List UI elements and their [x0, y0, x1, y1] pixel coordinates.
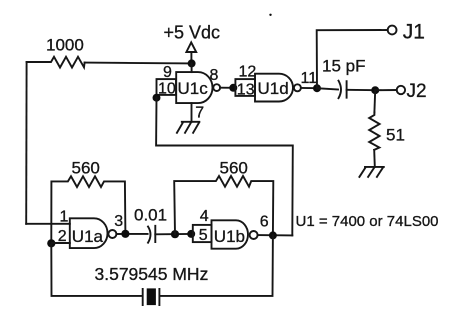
wire resistor 51 to ground: [373, 150, 376, 167]
svg-text:7: 7: [195, 105, 204, 122]
svg-text:4: 4: [200, 208, 209, 225]
pin label 1: [60, 209, 69, 226]
pin box 13 of U1d: [235, 79, 255, 98]
wire to J2: [375, 89, 397, 91]
svg-text:U1b: U1b: [214, 227, 245, 246]
wire pin 1 of U1a: [26, 223, 70, 225]
svg-text:0.01: 0.01: [134, 206, 167, 225]
output bubble U1b pin 6: [250, 214, 269, 239]
wire U1b output node up to U1c pin 10: [156, 98, 293, 236]
svg-text:8: 8: [210, 67, 219, 84]
ground below U1c pin 7: [177, 122, 199, 133]
node 0.01/560 junction: [171, 230, 179, 238]
pin box 10 of U1c: [157, 79, 177, 98]
svg-text:U1 = 7400 or 74LS00: U1 = 7400 or 74LS00: [296, 213, 439, 230]
node J2 junction: [371, 86, 379, 94]
svg-text:10: 10: [158, 81, 176, 98]
label U1 device type: [296, 213, 439, 230]
svg-text:560: 560: [220, 158, 248, 177]
op-amp U1d NAND gate: [255, 74, 293, 102]
svg-text:J2: J2: [407, 81, 427, 102]
svg-text:+5 Vdc: +5 Vdc: [164, 23, 221, 43]
output bubble U1a pin 3: [108, 213, 123, 238]
wire U1a output to capacitor: [116, 233, 147, 235]
svg-text:3.579545 MHz: 3.579545 MHz: [95, 264, 209, 284]
resistor 560 second with feedback loop wires: [174, 158, 273, 235]
svg-text:3: 3: [114, 213, 123, 230]
svg-text:51: 51: [386, 126, 405, 145]
op-amp U1c NAND gate: [176, 72, 212, 103]
wire up to J1: [317, 30, 388, 88]
svg-text:2: 2: [58, 228, 67, 245]
node pin 3 junction: [121, 230, 129, 238]
svg-text:13: 13: [237, 81, 255, 98]
node pin 2 junction: [47, 239, 55, 247]
node pin 5 junction: [187, 230, 195, 238]
svg-text:5: 5: [199, 227, 208, 244]
node pin 6 junction: [269, 231, 277, 239]
+5 Vdc supply: [164, 23, 221, 60]
op-amp U1b NAND gate: [212, 220, 249, 248]
svg-text:6: 6: [260, 214, 269, 231]
node pin 13 junction: [229, 84, 237, 92]
svg-text:U1a: U1a: [72, 227, 104, 246]
pin label 2: [58, 228, 67, 245]
capacitor 0.01: [134, 206, 167, 243]
resistor 560 first with feedback loop wires: [51, 159, 125, 244]
node output junction pin 11: [313, 84, 321, 92]
op-amp U1a NAND gate: [70, 218, 108, 248]
wire U1c output to U1d input: [220, 87, 233, 89]
wire U1d output to node: [301, 87, 317, 89]
svg-text:11: 11: [301, 70, 318, 87]
speck artifact: [269, 14, 271, 16]
output bubble U1c pin 8: [210, 67, 221, 91]
connector J1: [388, 21, 425, 44]
wire capacitor 0.01 to U1b input: [155, 233, 191, 235]
svg-text:12: 12: [239, 64, 257, 81]
connector J2: [397, 81, 427, 102]
pin box 5 of U1b: [193, 225, 212, 244]
capacitor 15 pF: [322, 57, 365, 99]
wire capacitor to J2 node: [347, 89, 376, 91]
wire J2 node down to resistor 51: [373, 90, 376, 112]
ground below resistor 51: [359, 167, 383, 177]
node +5V junction: [188, 59, 196, 67]
wire left vertical from 1000 down to pin 1: [25, 62, 27, 224]
resistor 1000: [46, 36, 85, 68]
wire top from resistor 1000 to +5V node: [27, 62, 192, 63]
svg-text:15 pF: 15 pF: [322, 57, 365, 76]
pin label 4: [200, 208, 209, 225]
svg-text:1000: 1000: [46, 36, 84, 55]
svg-text:U1c: U1c: [178, 79, 209, 98]
node pin 10 junction: [153, 94, 161, 102]
wire U1b output to node: [258, 234, 293, 236]
wire U1c pin 7: [192, 103, 205, 122]
svg-text:U1d: U1d: [258, 79, 289, 98]
wire crystal loop: [51, 235, 273, 296]
svg-text:J1: J1: [403, 21, 425, 44]
svg-text:1: 1: [60, 209, 69, 226]
crystal Y1 3.579545 MHz: [95, 264, 209, 305]
output bubble U1d pin 11: [294, 70, 317, 92]
wire pin 2 of U1a: [51, 242, 70, 244]
pin label 12: [239, 64, 257, 81]
resistor 51: [369, 112, 405, 150]
pin label 9: [163, 64, 172, 81]
wire from +5V node into U1c pin 9: [191, 63, 193, 72]
wire node to capacitor 15pF: [317, 88, 338, 89]
svg-text:560: 560: [72, 159, 100, 178]
